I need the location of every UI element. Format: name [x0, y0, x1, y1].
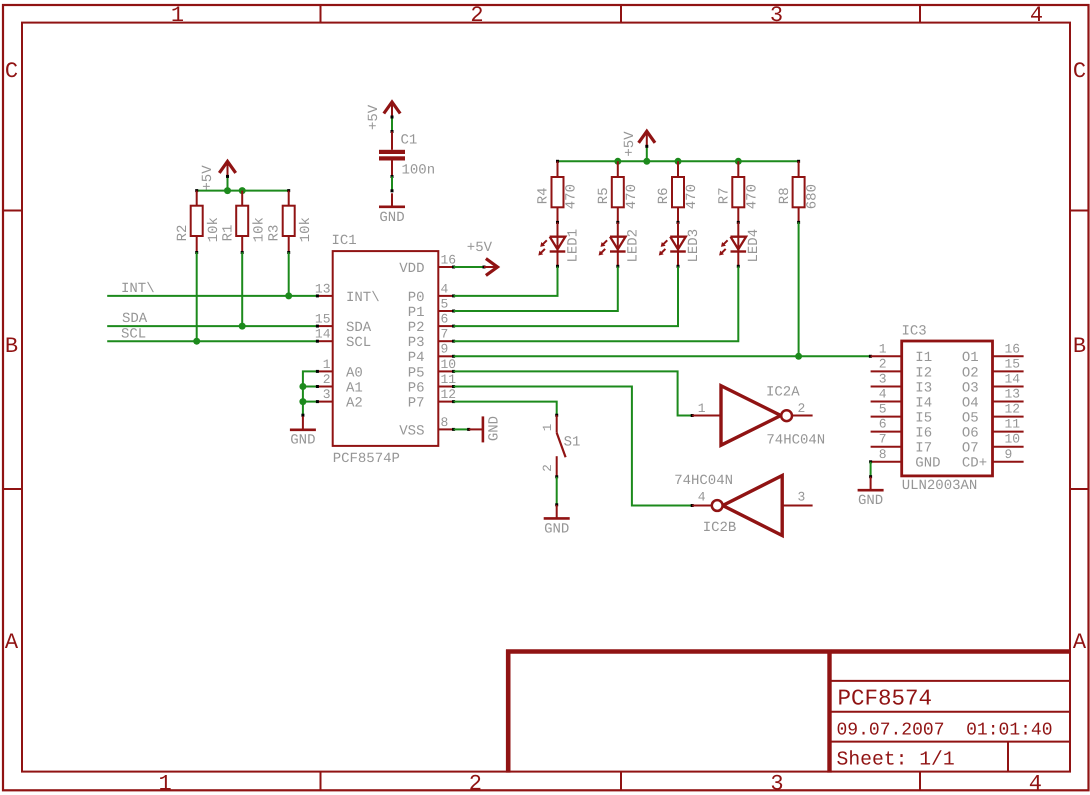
svg-text:7: 7 — [879, 432, 887, 447]
svg-text:2: 2 — [541, 464, 555, 472]
svg-text:3: 3 — [323, 387, 331, 402]
svg-text:P4: P4 — [408, 350, 425, 366]
svg-text:A0: A0 — [346, 365, 363, 381]
svg-text:680: 680 — [805, 184, 821, 209]
svg-text:Sheet: 1/1: Sheet: 1/1 — [837, 749, 955, 771]
svg-text:INT\: INT\ — [346, 290, 380, 306]
svg-text:10k: 10k — [252, 217, 268, 242]
svg-text:3: 3 — [798, 490, 806, 505]
svg-text:8: 8 — [879, 447, 887, 462]
svg-text:O6: O6 — [962, 426, 979, 442]
svg-text:I1: I1 — [915, 350, 932, 366]
svg-text:LED4: LED4 — [746, 229, 762, 263]
svg-text:9: 9 — [441, 342, 449, 357]
svg-text:R2: R2 — [175, 225, 191, 242]
svg-text:2: 2 — [323, 372, 331, 387]
svg-text:10: 10 — [441, 357, 457, 372]
svg-text:+5V: +5V — [366, 104, 382, 130]
svg-text:GND: GND — [544, 521, 569, 537]
svg-text:VDD: VDD — [399, 261, 424, 277]
svg-text:P0: P0 — [408, 290, 425, 306]
svg-text:IC2B: IC2B — [703, 520, 737, 536]
svg-text:3: 3 — [879, 371, 887, 386]
svg-text:S1: S1 — [564, 435, 581, 451]
svg-text:4: 4 — [1029, 772, 1042, 795]
svg-text:10: 10 — [1005, 432, 1021, 447]
svg-text:I6: I6 — [915, 426, 932, 442]
svg-text:SDA: SDA — [346, 320, 372, 336]
svg-text:R6: R6 — [656, 187, 672, 204]
svg-text:R8: R8 — [777, 187, 793, 204]
svg-text:P2: P2 — [408, 320, 425, 336]
svg-text:13: 13 — [1005, 387, 1021, 402]
svg-text:LED1: LED1 — [565, 229, 581, 263]
svg-text:470: 470 — [624, 184, 640, 209]
svg-text:B: B — [5, 334, 18, 359]
svg-text:C: C — [1073, 59, 1086, 84]
svg-text:2: 2 — [798, 401, 806, 416]
svg-text:14: 14 — [315, 327, 331, 342]
svg-text:15: 15 — [1005, 356, 1021, 371]
svg-text:O1: O1 — [962, 350, 979, 366]
svg-text:GND: GND — [858, 493, 883, 509]
svg-text:SCL: SCL — [346, 335, 371, 351]
svg-text:R4: R4 — [536, 187, 552, 204]
svg-text:5: 5 — [879, 402, 887, 417]
svg-text:A1: A1 — [346, 380, 363, 396]
svg-text:B: B — [1073, 334, 1086, 359]
svg-text:4: 4 — [1030, 3, 1043, 28]
svg-text:A: A — [1073, 630, 1087, 655]
svg-text:+5V: +5V — [622, 131, 638, 157]
svg-text:74HC04N: 74HC04N — [674, 473, 733, 489]
svg-text:VSS: VSS — [399, 423, 424, 439]
svg-text:GND: GND — [379, 210, 404, 226]
svg-text:16: 16 — [441, 252, 457, 267]
svg-text:PCF8574P: PCF8574P — [333, 451, 400, 467]
svg-text:I5: I5 — [915, 410, 932, 426]
svg-text:GND: GND — [487, 416, 503, 441]
svg-text:O7: O7 — [962, 441, 979, 457]
svg-text:SDA: SDA — [122, 311, 148, 327]
svg-text:P7: P7 — [408, 396, 425, 412]
svg-text:09.07.2007 01:01:40: 09.07.2007 01:01:40 — [837, 721, 1053, 741]
svg-text:5: 5 — [441, 296, 449, 311]
svg-text:11: 11 — [441, 372, 457, 387]
svg-text:IC1: IC1 — [332, 233, 357, 249]
svg-text:12: 12 — [1005, 402, 1021, 417]
svg-text:CD+: CD+ — [962, 456, 987, 472]
svg-text:+5V: +5V — [200, 165, 216, 191]
svg-text:R1: R1 — [220, 225, 236, 242]
svg-text:11: 11 — [1005, 417, 1021, 432]
svg-text:C1: C1 — [401, 133, 418, 149]
svg-text:I7: I7 — [915, 441, 932, 457]
svg-text:2: 2 — [879, 356, 887, 371]
svg-text:GND: GND — [290, 432, 315, 448]
svg-text:10k: 10k — [298, 217, 314, 242]
svg-text:R3: R3 — [266, 225, 282, 242]
svg-text:9: 9 — [1005, 447, 1013, 462]
svg-text:GND: GND — [915, 456, 940, 472]
svg-text:+5V: +5V — [467, 240, 493, 256]
svg-text:2: 2 — [469, 772, 482, 795]
svg-text:O3: O3 — [962, 380, 979, 396]
svg-text:R7: R7 — [717, 187, 733, 204]
svg-text:100n: 100n — [402, 162, 436, 178]
svg-text:1: 1 — [323, 357, 331, 372]
svg-text:I3: I3 — [915, 380, 932, 396]
svg-text:13: 13 — [315, 281, 331, 296]
svg-text:1: 1 — [171, 3, 184, 28]
svg-text:IC3: IC3 — [902, 324, 927, 340]
svg-text:14: 14 — [1005, 371, 1021, 386]
svg-text:3: 3 — [770, 772, 783, 795]
svg-text:P5: P5 — [408, 365, 425, 381]
svg-text:8: 8 — [441, 415, 449, 430]
svg-text:P6: P6 — [408, 380, 425, 396]
svg-text:4: 4 — [441, 281, 449, 296]
svg-text:A2: A2 — [346, 396, 363, 412]
svg-text:1: 1 — [541, 424, 555, 432]
svg-text:I2: I2 — [915, 365, 932, 381]
svg-text:470: 470 — [684, 184, 700, 209]
svg-text:PCF8574: PCF8574 — [838, 685, 933, 711]
svg-text:470: 470 — [564, 184, 580, 209]
svg-text:I4: I4 — [915, 395, 932, 411]
svg-text:6: 6 — [441, 312, 449, 327]
svg-text:3: 3 — [770, 3, 783, 28]
svg-text:LED3: LED3 — [686, 229, 702, 263]
svg-text:6: 6 — [879, 417, 887, 432]
svg-text:LED2: LED2 — [626, 229, 642, 263]
svg-text:C: C — [5, 59, 18, 84]
svg-text:2: 2 — [470, 3, 483, 28]
svg-text:470: 470 — [744, 184, 760, 209]
svg-text:INT\: INT\ — [121, 281, 155, 297]
svg-text:SCL: SCL — [121, 326, 146, 342]
svg-text:1: 1 — [698, 401, 706, 416]
svg-text:74HC04N: 74HC04N — [766, 432, 825, 448]
svg-text:ULN2003AN: ULN2003AN — [902, 478, 978, 494]
svg-text:1: 1 — [879, 341, 887, 356]
svg-text:4: 4 — [698, 490, 706, 505]
svg-text:7: 7 — [441, 327, 449, 342]
svg-text:O5: O5 — [962, 410, 979, 426]
svg-text:P1: P1 — [408, 305, 425, 321]
svg-text:IC2A: IC2A — [766, 384, 800, 400]
svg-text:O4: O4 — [962, 395, 979, 411]
svg-text:A: A — [5, 630, 19, 655]
svg-text:15: 15 — [315, 312, 331, 327]
svg-text:12: 12 — [441, 387, 457, 402]
svg-text:O2: O2 — [962, 365, 979, 381]
svg-text:4: 4 — [879, 387, 887, 402]
svg-text:P3: P3 — [408, 335, 425, 351]
svg-text:16: 16 — [1005, 341, 1021, 356]
svg-text:R5: R5 — [596, 187, 612, 204]
svg-text:1: 1 — [158, 772, 171, 795]
